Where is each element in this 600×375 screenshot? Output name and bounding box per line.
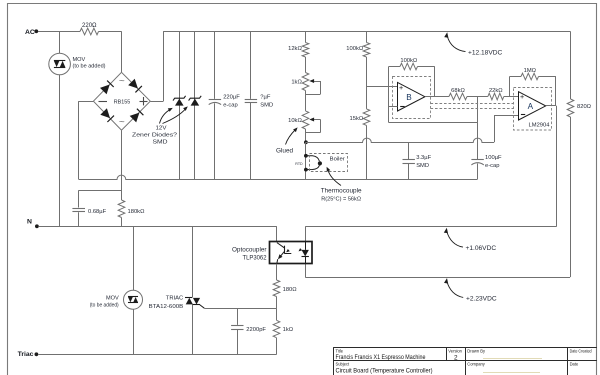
wire +12V bus down to 820&#937; <box>570 31 572 99</box>
wire sense rail up to A inverting input <box>494 116 519 143</box>
svg-text:1MΩ: 1MΩ <box>524 68 537 74</box>
svg-text:15kΩ: 15kΩ <box>350 116 364 122</box>
resistor 15k&#937; (ref divider bottom) <box>350 109 370 126</box>
resistor 180k&#937; <box>118 200 145 218</box>
svg-text:?µF: ?µF <box>260 95 271 101</box>
svg-text:100kΩ: 100kΩ <box>346 46 364 52</box>
svg-text:3.3µF: 3.3µF <box>416 155 431 161</box>
svg-text:0.68µF: 0.68µF <box>88 209 107 215</box>
annotation +2.23VDC <box>444 278 497 302</box>
svg-text:Date: Date <box>570 362 579 367</box>
svg-text:Drawn By: Drawn By <box>467 348 486 353</box>
resistor 100k&#937; (B feedback) <box>389 58 435 97</box>
wire 820&#937; down <box>570 117 572 277</box>
wire RTD chain to ground rail <box>305 142 307 179</box>
svg-text:+1.06VDC: +1.06VDC <box>466 245 497 252</box>
resistor 1k&#937; (gate pulldown) <box>273 308 294 354</box>
annotation +12.18VDC <box>444 32 502 56</box>
wire 180&#937; to gate node <box>276 297 278 309</box>
op-amp U1B (dashed outline) <box>393 77 431 119</box>
node sense (junction dot) <box>304 140 308 144</box>
capacitor C2 ?&#181;F SMD <box>245 31 273 179</box>
wire B- to 68k/22k node <box>389 97 478 123</box>
resistor 820&#937; <box>567 99 591 117</box>
resistor 100k&#937; (ref divider top) <box>346 31 370 57</box>
svg-text:A: A <box>528 102 534 111</box>
svg-text:Boiler: Boiler <box>330 157 345 163</box>
svg-text:2200pF: 2200pF <box>246 327 266 333</box>
svg-text:10kΩ: 10kΩ <box>288 118 302 124</box>
potentiometer 10k&#937; <box>288 111 320 133</box>
svg-text:12kΩ: 12kΩ <box>288 46 302 52</box>
title block <box>333 348 597 375</box>
bridge diode D3 (left-bottom edge) <box>100 108 114 122</box>
svg-text:Optocoupler: Optocoupler <box>232 247 267 254</box>
wire 1k pot to 10k pot <box>305 91 307 111</box>
bridge diode D2 (top-right edge) <box>128 79 142 93</box>
node Triac (terminal) <box>18 351 39 358</box>
wire AC tap to MOV1 <box>59 31 61 53</box>
wire R220 to bridge top <box>99 31 122 72</box>
wire ref node to B non-inverting input <box>367 86 398 88</box>
svg-text:Triac: Triac <box>18 351 34 358</box>
svg-text:Date Created: Date Created <box>570 348 593 353</box>
svg-text:220µF: 220µF <box>223 95 240 101</box>
bridge diode D4 (bottom-right edge) <box>130 109 144 123</box>
wire N bus to MOV2 <box>133 226 135 290</box>
varistor MOV1 (to be added) <box>49 53 106 75</box>
svg-text:TRIAC: TRIAC <box>166 296 183 302</box>
wire TRIAC to Triac bus <box>192 305 194 355</box>
svg-text:~: ~ <box>119 117 125 128</box>
resistor 180&#937; <box>273 280 297 297</box>
svg-text:(to be added): (to be added) <box>73 64 106 70</box>
wire 15k to ground rail <box>366 125 368 179</box>
optocoupler LED side <box>299 242 309 264</box>
N bus <box>39 226 277 228</box>
svg-text:N: N <box>27 218 32 225</box>
svg-text:22kΩ: 22kΩ <box>489 88 503 94</box>
boiler (dashed box) <box>310 154 348 172</box>
wire 10k pot to sense node <box>305 129 307 142</box>
LM2904 package dashed channel <box>431 104 514 109</box>
svg-text:68kΩ: 68kΩ <box>451 88 465 94</box>
svg-text:BTA12-600B: BTA12-600B <box>149 304 184 310</box>
svg-text:Circuit Board (Temperature Con: Circuit Board (Temperature Controller) <box>336 368 433 375</box>
TRIAC BTA12-600B <box>149 296 200 311</box>
annotation +1.06VDC <box>444 228 497 252</box>
resistor 220&#937; <box>80 23 99 35</box>
svg-text:R(25°C) = 56kΩ: R(25°C) = 56kΩ <box>321 197 361 203</box>
svg-text:12V: 12V <box>156 125 167 131</box>
svg-text:1kΩ: 1kΩ <box>291 80 302 86</box>
svg-text:Francis Francis X1 Espresso Ma: Francis Francis X1 Espresso Machine <box>336 354 426 361</box>
svg-text:+12.18VDC: +12.18VDC <box>468 50 503 57</box>
svg-text:2: 2 <box>454 354 458 361</box>
svg-text:LM2904: LM2904 <box>529 123 551 129</box>
varistor MOV2 (to be added) <box>90 290 143 309</box>
wire AC to R 220 <box>38 31 80 33</box>
svg-text:MOV: MOV <box>106 296 119 302</box>
svg-text:100kΩ: 100kΩ <box>400 58 418 64</box>
svg-text:180kΩ: 180kΩ <box>128 209 146 215</box>
wire MOV1 to N bus <box>59 75 61 227</box>
svg-text:+2.23VDC: +2.23VDC <box>466 295 497 302</box>
op-amp U1A LM2904 <box>519 92 551 129</box>
svg-text:100µF: 100µF <box>485 155 502 161</box>
svg-text:e-cap: e-cap <box>485 163 500 169</box>
svg-text:e-cap: e-cap <box>223 103 238 109</box>
capacitor C1 220&#181;F e-cap <box>209 31 241 179</box>
resistor 12k&#937; <box>288 31 309 57</box>
svg-text:TLP3062: TLP3062 <box>243 255 268 262</box>
svg-text:220Ω: 220Ω <box>82 23 97 29</box>
svg-text:Subject: Subject <box>336 362 351 367</box>
capacitor 0.68&#181;F <box>72 190 106 226</box>
svg-text:1kΩ: 1kΩ <box>283 327 294 333</box>
wire B inverting input <box>389 67 398 123</box>
wire snubber connector <box>79 190 122 192</box>
svg-text:820Ω: 820Ω <box>577 104 592 110</box>
label Thermocouple R(25C)=56k <box>321 167 362 203</box>
wire B output <box>425 96 449 98</box>
optocoupler TLP3062 (box) <box>232 242 312 264</box>
svg-text:+: + <box>399 83 403 92</box>
node AC (terminal) <box>25 29 38 36</box>
svg-text:SMD: SMD <box>153 139 168 145</box>
svg-text:RTD: RTD <box>295 162 303 166</box>
node N (terminal) <box>27 218 39 228</box>
svg-text:Zener Diodes?: Zener Diodes? <box>132 132 178 138</box>
capacitor 100&#181;F e-cap <box>471 122 502 179</box>
Triac bus <box>38 354 276 356</box>
ground rail (hops AC neutral line) <box>78 175 477 179</box>
wire N bus to optocoupler <box>276 226 278 242</box>
svg-text:+: + <box>520 92 524 101</box>
wire 68k to 22k <box>467 96 488 98</box>
wire 12k to 1k pot <box>305 57 307 73</box>
op-amp U1B <box>398 82 425 111</box>
label Glued (leader to 10k pot) <box>276 127 298 154</box>
label 12V Zener Diodes? SMD <box>132 106 188 145</box>
op-amp U1A (dashed outline) <box>514 88 552 131</box>
wire bridge - to ground rail <box>78 101 93 179</box>
wire N bus to TRIAC <box>192 226 194 297</box>
svg-text:180Ω: 180Ω <box>283 287 298 293</box>
svg-text:SMD: SMD <box>260 103 273 109</box>
wire ref node <box>366 57 368 109</box>
svg-text:Version: Version <box>448 348 462 353</box>
zener diode Z2 12V SMD <box>189 31 202 179</box>
capacitor 3.3&#181;F SMD <box>403 142 432 179</box>
resistor 68k&#937; <box>449 88 467 100</box>
optocoupler photo-triac side <box>277 243 291 264</box>
svg-text:B: B <box>406 93 412 102</box>
rail A output to optocoupler LED (+1.06VDC) <box>305 227 556 242</box>
svg-text:Title: Title <box>336 348 344 353</box>
svg-text:Glued: Glued <box>276 148 293 155</box>
wire bridge ~ to N bus <box>121 130 123 226</box>
svg-text:SMD: SMD <box>416 163 429 169</box>
wire bridge + to +12V bus <box>150 31 163 101</box>
wire 22k to A non-inverting input <box>504 96 519 98</box>
rail 820&#937; to optocoupler LED (+2.23VDC) <box>305 264 570 278</box>
node gate / wire to triac gate <box>200 305 277 309</box>
svg-text:Thermocouple: Thermocouple <box>321 187 362 194</box>
sense rail (hops 15k line and 100uF line) <box>306 138 494 142</box>
svg-text:(to be added): (to be added) <box>90 302 119 308</box>
bridge rectifier RB155 (body) <box>93 72 150 130</box>
zener diode Z1 12V SMD <box>173 31 186 179</box>
bridge diode D1 (left-top edge) <box>100 81 114 95</box>
svg-text:Company: Company <box>467 362 485 367</box>
svg-text:AC: AC <box>25 29 35 36</box>
wire opto emitter to 180&#937; <box>276 264 278 280</box>
svg-text:~: ~ <box>119 76 125 87</box>
svg-text:RB155: RB155 <box>114 100 130 106</box>
resistor 1M&#937; (A feedback) <box>510 68 556 106</box>
capacitor 2200pF <box>231 308 266 354</box>
wire MOV2 to Triac bus <box>133 309 135 354</box>
+12V top bus <box>163 31 570 33</box>
resistor 22k&#937; <box>488 88 504 100</box>
wire A output <box>546 106 557 227</box>
svg-text:MOV: MOV <box>73 57 86 63</box>
potentiometer 1k&#937; <box>291 73 320 95</box>
thermocouple RTD (glued to boiler) <box>295 154 322 172</box>
